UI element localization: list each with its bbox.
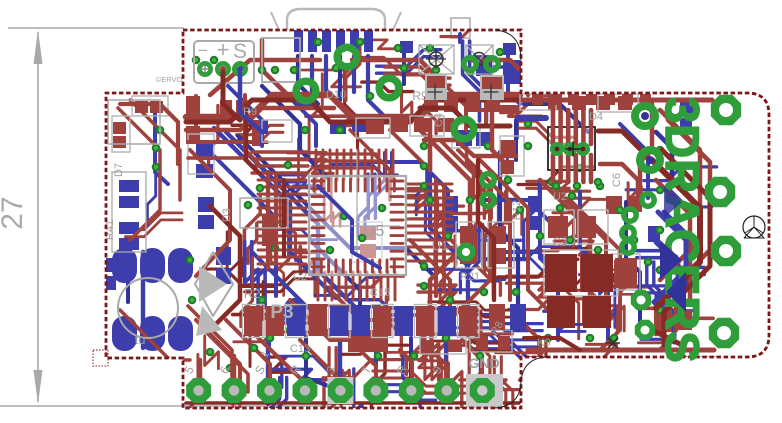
IC U5 pin top [393,179,396,191]
wire [485,192,499,273]
IC U4 mid pad 3 [578,144,588,154]
via [446,296,455,305]
wire thick2 [210,206,240,330]
pad J2-1 [186,378,211,403]
wire [480,171,491,218]
wire [240,392,252,423]
wire [368,153,384,219]
wire [312,242,360,330]
wire [348,300,421,308]
IC U4 pin bar bot [558,155,563,182]
pad J2-4 [293,378,318,403]
pad [113,136,126,148]
pad [596,96,610,110]
wire [336,150,339,180]
via [210,56,219,65]
wire [390,130,430,170]
wire [287,160,333,174]
wire [406,197,452,200]
wire [279,356,347,373]
pad [298,92,314,106]
IC U5 pin bottom [364,260,367,272]
via [548,178,557,187]
pad [444,96,458,112]
pad J2-9 [470,378,495,403]
pad [220,100,232,114]
wire [432,333,449,391]
IC U5 pin bottom [327,260,330,272]
wire [544,311,573,325]
via [366,92,375,101]
wire [606,303,615,327]
pad [308,30,317,52]
pad [654,310,672,332]
wire [406,253,452,256]
wire [252,157,308,160]
pad [322,30,331,52]
wire [252,164,308,167]
pad [390,118,408,132]
wire [258,263,306,266]
pad [424,96,438,112]
wire [366,272,369,300]
svg-text:K9: K9 [537,337,550,349]
dimension arrow top [34,30,43,64]
pad ring [624,209,636,221]
wire [463,41,480,121]
pad [548,296,574,326]
pad [196,144,213,160]
pad [400,41,413,53]
pad pill 1 [112,248,137,283]
IC U5 pin left [312,211,324,214]
wire [343,150,346,180]
corner arc 3 [521,357,549,382]
wire [549,317,585,331]
wire [431,330,446,380]
wire [406,218,452,221]
pad block C13b [615,258,637,288]
wire [524,185,540,257]
pad [606,196,622,214]
via [420,182,429,191]
pad J2-9b [470,378,495,403]
wire [492,192,506,273]
wire [473,171,484,218]
pad [198,197,214,212]
wire [125,213,182,230]
wire [620,124,648,198]
silk casing [544,250,618,296]
wire [392,150,395,180]
via [586,334,595,343]
pad band [438,306,457,336]
wire [514,120,518,160]
wire [411,206,464,219]
IC U5 pin right [391,203,403,206]
wire [205,336,219,369]
pad H4 [709,318,739,348]
svg-text:C2: C2 [293,271,307,283]
via [442,334,451,343]
wire [416,168,426,215]
wire [586,344,632,361]
wire [387,359,437,367]
wire [302,70,361,87]
pad band [416,306,435,336]
pad ring [482,174,494,186]
wire [445,334,512,346]
silk casing [420,334,466,354]
wire [316,159,376,162]
wire [359,272,362,300]
pad [119,238,139,250]
wire [338,56,342,100]
pad J2-3 [257,378,282,403]
silk cross QFP [356,150,358,252]
IC U5 pin left [312,226,324,229]
pad [252,120,260,146]
via [258,66,267,75]
pad band [309,306,328,336]
via [420,162,429,171]
wire [501,107,542,117]
wire [317,272,320,300]
wire [326,56,344,108]
wire [647,262,656,329]
wire [540,180,590,300]
via [656,306,665,315]
wire [656,132,672,180]
corner arc 1 [495,30,521,60]
via [524,142,533,151]
wire [266,330,270,404]
pad [548,96,562,110]
pad pill 2 [140,248,165,283]
wire [552,248,595,257]
wire [258,186,306,189]
pad [546,256,576,292]
silk casing [500,136,524,176]
diode wedge 1 [660,240,682,280]
wire [439,280,505,290]
wire [330,290,400,320]
pad band [287,306,306,336]
pad J2-6 [363,378,388,403]
wire [258,221,306,224]
wire [194,96,198,140]
svg-text:27: 27 [0,196,29,229]
wire [498,259,578,277]
wire [480,160,560,322]
fiducial crossbox 2 [466,45,493,74]
IC U5 pin top [349,179,352,191]
via [302,352,311,361]
wire [429,309,510,317]
silk band casing [243,305,265,338]
wire [252,150,308,153]
wire [266,172,270,268]
pad H3 [711,236,741,266]
wire [406,183,452,186]
wire [183,354,198,423]
wire [365,174,375,235]
wire [188,140,250,144]
wire [472,60,528,95]
wire [276,377,287,423]
wire [245,279,315,292]
wire [424,330,439,380]
pad pill 6 [168,316,193,351]
wire [375,153,391,219]
pad [460,248,476,264]
pad J2-9 plate [466,374,503,408]
wire [350,150,353,180]
pad J2-2 [222,378,247,403]
wire [406,239,452,242]
wire [126,252,130,302]
pad [648,226,660,242]
wire [228,86,262,146]
wire [345,68,358,148]
wire [120,104,178,164]
pad [438,118,454,132]
wire [430,350,446,390]
wire [214,128,336,298]
via [340,212,349,221]
fiducial crossbox 1 [419,45,454,74]
wire [458,34,462,42]
svg-text:C4: C4 [433,113,445,127]
wire [607,299,624,331]
wire [460,380,531,390]
pad [113,122,126,134]
pad [528,196,542,212]
wire [642,286,697,304]
IC U5 pin right [391,242,403,245]
silk casing [488,222,514,268]
via [332,64,341,73]
wire [554,241,597,255]
pad [486,96,500,112]
IC U5 pin right [391,265,403,268]
wire [364,150,367,180]
via [244,201,253,210]
silk left box2 [112,172,146,252]
pad pill 3 [168,248,193,283]
wire [272,80,316,146]
wire [570,200,620,350]
IC U4 pin bar bot [589,155,594,182]
pad ring [337,47,357,67]
pad [604,94,615,105]
wire [306,336,340,390]
wire [226,320,270,390]
pad [119,180,139,192]
pad [676,310,692,330]
IC U5 pin bottom [313,260,316,272]
pad ring [622,227,634,239]
silk band casing [372,305,394,338]
via [356,38,365,47]
wire [324,176,333,226]
outline fragment [93,350,108,366]
silk servo connector box [194,41,254,83]
IC U5 pin right [391,195,403,198]
pad [492,248,506,264]
pad pill 4 [112,316,137,351]
wire [155,110,168,184]
pad servo 1 [199,63,210,74]
pad [476,336,488,350]
pad [586,94,597,105]
pad [550,94,561,105]
wire [269,377,280,423]
via [266,334,275,343]
via [432,66,441,75]
wire [481,311,490,396]
wire [208,150,276,296]
wire [536,337,546,384]
svg-text:R21: R21 [460,271,480,283]
pad [498,336,510,350]
wire [440,140,490,314]
wire [509,299,584,310]
pad band [352,306,371,336]
svg-text:C6: C6 [611,173,623,187]
wire [408,189,453,206]
wire [323,360,402,378]
via [512,288,521,297]
wire [329,150,332,180]
pad ring [486,58,498,70]
dimension extension line bottom [0,405,330,407]
svg-text:tu: tu [135,332,146,347]
svg-text:GND: GND [468,355,499,371]
wire [378,150,381,180]
via [566,236,575,245]
wire [668,120,710,330]
pad band [244,306,263,336]
wire [626,190,712,207]
wire [373,272,376,300]
wire [380,385,435,393]
wire [147,161,155,225]
wire [318,186,380,268]
via [420,262,429,271]
pad [614,260,634,288]
svg-text:C3: C3 [552,235,568,249]
wire [600,164,638,210]
IC U5 pin bottom [371,260,374,272]
IC U5 pin bottom [342,260,345,272]
wire [386,297,401,356]
wire [642,293,697,311]
silk band casing [329,305,351,338]
pad [262,216,276,246]
pad [186,126,200,144]
diode wedge 2 [666,272,686,312]
svg-text:D7: D7 [113,163,125,177]
pad [622,94,633,105]
wire [492,104,510,168]
wire [464,96,468,130]
IC U5 pin right [391,187,403,190]
wire [427,69,436,133]
via [271,66,280,75]
wire [527,188,590,198]
via [536,232,545,241]
svg-text:D3: D3 [221,208,233,222]
pad J2-8 [434,378,459,403]
IC U5 pin top [342,179,345,191]
IC U5 pin bottom [393,260,396,272]
wire [252,252,308,308]
wire [484,200,556,228]
wire [418,285,464,302]
IC U5 pin left [312,242,324,245]
wire [315,150,318,180]
via [484,142,493,151]
wire [518,236,592,251]
wire [248,224,257,264]
via [520,52,529,61]
pad [364,30,373,52]
wire [357,150,360,180]
wire [662,150,710,344]
pad [500,160,514,174]
pad ring [640,150,660,170]
pad [466,96,480,112]
via [656,186,665,195]
pad [460,226,476,244]
wire [433,341,512,350]
pad ring [296,81,316,101]
svg-text:D10: D10 [326,89,346,101]
wire [327,276,404,287]
wire [464,315,542,324]
wire [324,272,327,300]
wire [282,180,286,256]
wire [271,215,284,295]
pad band3 [510,304,526,330]
wire [262,86,330,180]
IC U4 mid pad 2 [565,144,575,154]
wire [638,343,673,351]
via [426,44,435,53]
wire [186,95,520,117]
wire [484,258,574,271]
pad [568,94,579,105]
svg-text:D4: D4 [589,111,603,123]
via [420,282,429,291]
wire [299,139,316,197]
silk casing [452,124,480,148]
wire [244,194,260,260]
wire [316,166,376,169]
pad [476,58,492,76]
wire [125,220,182,237]
wire [275,182,320,195]
wire [656,242,678,326]
wire [322,150,325,180]
pad oct B [635,320,655,340]
silk band casing [415,305,437,338]
pad J2-5 [327,377,353,404]
wire [359,57,436,75]
wire [245,242,258,308]
wire [420,130,470,330]
